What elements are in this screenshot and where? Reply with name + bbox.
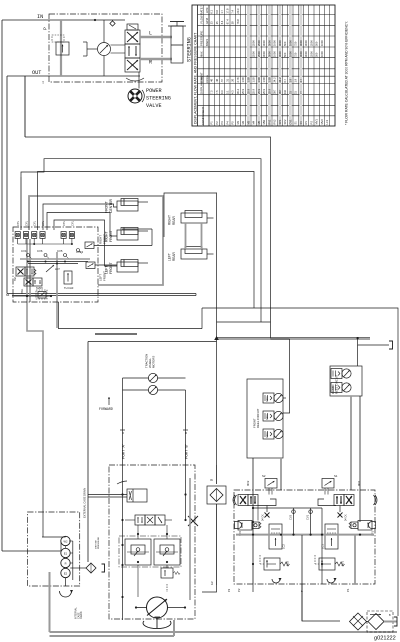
svg-text:CYL: CYL (16, 220, 20, 226)
svg-text:9.3: 9.3 (220, 90, 224, 94)
svg-text:CV5: CV5 (57, 249, 63, 253)
svg-text:GPM: GPM (205, 18, 209, 24)
svg-text:REEL CIRCUIT: REEL CIRCUIT (256, 408, 260, 428)
svg-text:7.5: 7.5 (210, 90, 214, 94)
svg-text:MW: MW (262, 119, 266, 124)
svg-text:SV1: SV1 (14, 276, 17, 281)
svg-text:67.4: 67.4 (225, 19, 229, 25)
svg-text:4.3: 4.3 (231, 90, 235, 94)
svg-text:25.9: 25.9 (267, 88, 271, 94)
svg-text:REEL: REEL (266, 413, 269, 420)
svg-text:750: 750 (294, 41, 298, 46)
svg-text:cm³/rev: cm³/rev (206, 74, 209, 83)
svg-text:OUT: OUT (32, 70, 41, 76)
svg-text:M2: M2 (241, 120, 245, 124)
svg-text:FRONT: FRONT (105, 201, 109, 213)
svg-text:6.4: 6.4 (220, 20, 224, 24)
svg-text:IN: IN (210, 478, 213, 482)
svg-text:P2: P2 (215, 121, 219, 125)
svg-text:SP2: SP2 (283, 119, 287, 124)
svg-text:24.2: 24.2 (278, 77, 282, 83)
svg-text:FRONT: FRONT (109, 230, 113, 242)
svg-text:M1: M1 (236, 120, 240, 124)
svg-text:1000: 1000 (288, 51, 292, 57)
svg-text:PORT "A": PORT "A" (122, 443, 126, 459)
svg-text:20.3: 20.3 (236, 8, 240, 14)
svg-text:MV1: MV1 (357, 480, 361, 486)
svg-text:P2: P2 (237, 588, 241, 592)
svg-text:A: A (121, 432, 125, 434)
svg-text:RV1: RV1 (341, 560, 345, 566)
svg-text:CYL: CYL (62, 220, 66, 226)
svg-text:1.9: 1.9 (294, 78, 298, 82)
svg-text:CV1: CV1 (306, 514, 310, 520)
svg-text:2500: 2500 (252, 51, 256, 57)
svg-text:2500: 2500 (309, 51, 313, 57)
svg-text:P4: P4 (225, 121, 229, 125)
svg-text:17.8: 17.8 (225, 8, 229, 14)
svg-text:S1: S1 (334, 474, 338, 478)
svg-text:500: 500 (283, 52, 287, 57)
svg-text:1000: 1000 (320, 51, 324, 57)
svg-text:RV1: RV1 (267, 119, 271, 125)
svg-text:MOTORS: MOTORS (152, 356, 156, 368)
svg-text:3000: 3000 (267, 40, 271, 46)
svg-text:6.7: 6.7 (283, 78, 287, 82)
svg-text:DISPLACEMENT, FLOW RATE, AND P: DISPLACEMENT, FLOW RATE, AND PRESSURE CH… (193, 32, 197, 124)
svg-text:500: 500 (315, 41, 319, 46)
svg-text:IN: IN (37, 14, 43, 20)
svg-text:RIGHT: RIGHT (168, 215, 172, 225)
svg-text:STEERING: STEERING (146, 96, 171, 102)
svg-text:397: 397 (273, 89, 277, 94)
svg-text:.46: .46 (210, 78, 214, 82)
svg-text:RV2: RV2 (273, 119, 277, 125)
svg-text:CYL: CYL (24, 220, 28, 226)
svg-text:in³/rev: in³/rev (200, 76, 203, 83)
svg-text:1.58: 1.58 (262, 77, 266, 83)
svg-text:1000: 1000 (320, 40, 324, 46)
svg-text:1.58: 1.58 (241, 77, 245, 83)
svg-text:TH CH3: TH CH3 (64, 286, 74, 290)
svg-text:25.9: 25.9 (241, 88, 245, 94)
svg-text:MV2: MV2 (320, 119, 324, 125)
svg-text:3000: 3000 (278, 51, 282, 57)
svg-text:SW1: SW1 (21, 288, 24, 294)
svg-text:LC1: LC1 (325, 119, 329, 124)
svg-text:1000: 1000 (273, 40, 277, 46)
svg-text:EXTERNAL CASE DRAIN: EXTERNAL CASE DRAIN (83, 488, 87, 518)
svg-text:500: 500 (315, 52, 319, 57)
svg-text:3000: 3000 (262, 40, 266, 46)
svg-text:VALVE: VALVE (146, 103, 162, 109)
svg-text:SVRV: SVRV (36, 286, 43, 290)
svg-text:BARS: BARS (205, 39, 209, 46)
svg-text:P3: P3 (220, 121, 224, 125)
svg-text:REEL: REEL (266, 431, 269, 438)
svg-text:6.1: 6.1 (210, 9, 214, 13)
svg-text:76.8: 76.8 (236, 19, 240, 25)
svg-text:REEL: REEL (266, 395, 269, 402)
svg-text:500: 500 (283, 41, 287, 46)
svg-text:.57: .57 (220, 78, 224, 82)
svg-text:25.9: 25.9 (246, 88, 250, 94)
svg-text:P2: P2 (227, 588, 231, 592)
svg-text:CV2: CV2 (289, 514, 293, 520)
svg-text:P1: P1 (346, 588, 350, 592)
svg-text:RV2: RV2 (286, 560, 290, 566)
svg-text:DRAIN: DRAIN (80, 611, 83, 619)
svg-text:1.9: 1.9 (288, 78, 292, 82)
svg-text:750: 750 (294, 52, 298, 57)
svg-text:04 CK: 04 CK (262, 514, 265, 521)
svg-text:3000: 3000 (304, 51, 308, 57)
svg-text:MV1: MV1 (315, 119, 319, 125)
svg-text:3000: 3000 (278, 40, 282, 46)
svg-text:MAX: MAX (199, 51, 203, 57)
svg-text:L: L (149, 31, 152, 37)
svg-text:REAR: REAR (172, 251, 176, 261)
svg-text:CYL: CYL (70, 220, 74, 226)
svg-text:3000: 3000 (267, 51, 271, 57)
svg-text:2500: 2500 (252, 40, 256, 46)
svg-text:PRESSURE: PRESSURE (98, 536, 100, 549)
svg-text:LEFT: LEFT (168, 253, 172, 261)
svg-text:PS: PS (309, 121, 313, 125)
svg-text:2500: 2500 (257, 51, 261, 57)
svg-text:CYL: CYL (33, 220, 37, 226)
svg-text:2500: 2500 (309, 40, 313, 46)
svg-text:CV1: CV1 (288, 119, 292, 125)
svg-text:MV2: MV2 (246, 480, 250, 486)
svg-text:CYL: CYL (41, 220, 45, 226)
svg-text:.26: .26 (231, 78, 235, 82)
svg-text:3000: 3000 (262, 51, 266, 57)
svg-text:RV: RV (304, 121, 308, 125)
svg-text:25.9: 25.9 (257, 88, 261, 94)
svg-text:1/2: 1/2 (210, 581, 214, 585)
svg-text:M4: M4 (252, 120, 256, 124)
svg-text:7.4: 7.4 (231, 9, 235, 13)
svg-text:.31: .31 (225, 78, 229, 82)
svg-text:110: 110 (283, 89, 287, 94)
svg-text:LC2: LC2 (282, 544, 286, 549)
svg-text:B: B (184, 432, 188, 434)
svg-text:2.76: 2.76 (236, 77, 240, 83)
svg-text:LD7: LD7 (55, 267, 60, 271)
svg-text:REEL CIRCUIT: REEL CIRCUIT (335, 374, 339, 394)
svg-text:1.58: 1.58 (246, 77, 250, 83)
svg-text:LC1: LC1 (321, 544, 325, 549)
svg-text:E1: E1 (64, 551, 68, 555)
svg-text:3000: 3000 (299, 51, 303, 57)
svg-text:POWER: POWER (146, 88, 162, 94)
svg-text:P: P (43, 27, 48, 30)
svg-text:397: 397 (278, 89, 282, 94)
svg-text:E2: E2 (64, 571, 68, 575)
svg-text:5.1: 5.1 (225, 90, 229, 94)
svg-text:64: 64 (6, 293, 10, 297)
svg-text:1000: 1000 (288, 40, 292, 46)
svg-text:W2: W2 (64, 539, 68, 543)
svg-text:PRESSURE: PRESSURE (199, 30, 203, 46)
svg-text:CV4: CV4 (21, 249, 27, 253)
svg-text:04 CK: 04 CK (345, 514, 348, 521)
svg-text:CENTER: CENTER (109, 199, 113, 213)
svg-text:24.2: 24.2 (273, 77, 277, 83)
svg-text:* FLOW RATE CALCULATED AT 3000: * FLOW RATE CALCULATED AT 3000 RPM AND 9… (345, 21, 349, 125)
svg-text:4.7: 4.7 (299, 78, 303, 82)
svg-text:FORWARD: FORWARD (99, 407, 113, 411)
svg-text:1.7: 1.7 (220, 9, 224, 13)
svg-text:S2: S2 (262, 474, 266, 478)
svg-text:RIGHT: RIGHT (105, 231, 109, 242)
svg-text:COMPONENT: COMPONENT (201, 107, 205, 125)
svg-text:R: R (149, 60, 152, 66)
svg-text:P1: P1 (210, 121, 214, 125)
svg-text:45.2: 45.2 (236, 88, 240, 94)
svg-text:SV: SV (299, 121, 303, 125)
svg-text:6.6: 6.6 (215, 9, 219, 13)
svg-text:R: R (65, 561, 67, 565)
svg-text:M3: M3 (246, 120, 250, 124)
svg-text:1.58: 1.58 (257, 77, 261, 83)
svg-text:g021222: g021222 (374, 636, 396, 642)
svg-text:CV6: CV6 (37, 249, 43, 253)
svg-text:3000: 3000 (299, 40, 303, 46)
svg-text:SP1: SP1 (278, 119, 282, 124)
svg-text:1000: 1000 (273, 51, 277, 57)
svg-text:2500: 2500 (257, 40, 261, 46)
svg-text:25.9: 25.9 (262, 88, 266, 94)
svg-text:.46: .46 (215, 78, 219, 82)
svg-text:PORT "B": PORT "B" (185, 443, 189, 459)
svg-text:FLOW RATE *: FLOW RATE * (199, 5, 203, 24)
svg-text:3000: 3000 (304, 40, 308, 46)
svg-text:1.58: 1.58 (252, 77, 256, 83)
svg-text:FRONT: FRONT (109, 262, 113, 274)
svg-text:S1: S1 (294, 121, 298, 125)
svg-text:T: T (42, 81, 44, 85)
svg-text:LPM: LPM (205, 8, 209, 13)
svg-text:7.5: 7.5 (215, 90, 219, 94)
svg-text:25.9: 25.9 (252, 88, 256, 94)
svg-text:1.58: 1.58 (267, 77, 271, 83)
svg-text:LEFT: LEFT (105, 266, 109, 274)
svg-text:REAR: REAR (172, 215, 176, 225)
svg-text:M5: M5 (257, 120, 261, 124)
svg-text:P5: P5 (231, 121, 235, 125)
